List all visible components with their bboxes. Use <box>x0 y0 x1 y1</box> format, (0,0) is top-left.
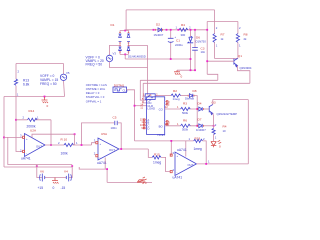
main DC rail <box>125 29 207 31</box>
svg-text:LOAD: LOAD <box>147 107 155 111</box>
svg-text:10: 10 <box>223 129 227 133</box>
svg-text:1meg: 1meg <box>153 160 161 164</box>
svg-text:0: 0 <box>53 186 55 190</box>
svg-text:R 10: R 10 <box>61 137 68 141</box>
svg-text:10n: 10n <box>201 50 206 54</box>
wire: left edge upper (to R13) <box>15 64 17 80</box>
wire: right riser output to Q3 collector line <box>247 100 249 164</box>
wire: top edge of V5 loop <box>16 63 64 65</box>
resistor R13 <box>14 79 17 85</box>
wire: bridge AC right <box>129 44 148 46</box>
capacitor C4 bypass row <box>82 123 122 149</box>
resistor R10 <box>64 143 74 146</box>
svg-text:U2A: U2A <box>30 129 37 133</box>
junction R14 tap <box>15 119 17 121</box>
wire: R2 to D8 <box>181 95 188 97</box>
svg-text:R14: R14 <box>29 109 35 113</box>
bridge diode bottom-right <box>127 47 130 51</box>
resistor R19 <box>194 139 203 142</box>
counter unused input stubs <box>145 120 147 128</box>
svg-text:CLK: CLK <box>123 88 129 92</box>
ground 0 (left loop) <box>42 97 49 103</box>
wire: to op-amp1 + input <box>4 136 23 138</box>
bridge diode D1 (top-left) <box>119 34 122 42</box>
resistor R2 <box>171 94 181 97</box>
svg-text:R7: R7 <box>221 33 225 37</box>
svg-text:1meg: 1meg <box>173 97 180 101</box>
wire: Q1 base <box>207 60 234 62</box>
wire: bottom edge of V5 loop <box>4 96 65 98</box>
svg-text:D2: D2 <box>156 23 160 27</box>
junction to op-amp + <box>3 137 5 139</box>
DigClock DSTM1 <box>113 87 127 93</box>
wire: R14 down to output node <box>50 120 52 145</box>
wire: lower supply bus <box>177 69 196 71</box>
svg-text:100n: 100n <box>111 126 118 130</box>
junction bus/battery left <box>36 165 38 167</box>
svg-text:100k: 100k <box>61 152 69 156</box>
svg-text:13: 13 <box>165 122 168 126</box>
wire: op2 output <box>119 148 148 150</box>
svg-text:D1: D1 <box>111 23 115 27</box>
svg-text:R4: R4 <box>223 125 227 129</box>
wire: top feed drop to bridge <box>125 10 127 31</box>
wire: R7 bottom to collector node <box>215 42 238 58</box>
wire: counter pin2 drop <box>143 83 146 103</box>
wire: signal rail x16 down to op-amp1 - input <box>16 97 23 152</box>
wire: left edge lower (R13 to bottom) <box>15 86 17 97</box>
resistor R3 <box>181 107 191 110</box>
svg-text:0: 0 <box>47 104 49 108</box>
svg-text:D4: D4 <box>198 102 202 106</box>
wire: switch feed drop <box>147 45 149 93</box>
diode D7 <box>199 124 202 128</box>
wire: long feed to IC pin2 rail <box>143 82 250 84</box>
svg-text:R6: R6 <box>183 118 187 122</box>
svg-text:0: 0 <box>219 144 221 148</box>
source V6 <box>41 174 43 182</box>
wire: left drop from loop bottom <box>3 97 5 168</box>
svg-text:C5: C5 <box>113 115 117 119</box>
wire: R7 hang from top feed <box>214 10 216 34</box>
wire: branch to counter pin <box>135 105 147 107</box>
transistor Q3 <box>208 106 210 113</box>
svg-text:R8: R8 <box>244 33 248 37</box>
bridge diode bottom-left <box>119 47 122 51</box>
transistor Q1 <box>233 59 235 65</box>
wire: U1 to R2 <box>155 95 171 97</box>
svg-text:DSTM1: DSTM1 <box>114 84 125 88</box>
svg-text:Q2N2222/TEMP: Q2N2222/TEMP <box>217 112 238 116</box>
svg-text:-: - <box>177 170 178 174</box>
svg-text:FREQ = 50: FREQ = 50 <box>86 63 103 67</box>
svg-text:R15: R15 <box>154 153 160 157</box>
diode bridge rails <box>120 31 129 55</box>
wire: counter pin1 drop <box>140 80 146 100</box>
resistor R14 (feedback) <box>16 119 51 121</box>
junction rail/D4 <box>196 108 198 110</box>
wire: op-amp1 output <box>45 144 64 146</box>
op-amp U2A (left) <box>25 134 46 157</box>
svg-text:1N4007: 1N4007 <box>196 128 206 132</box>
svg-text:D8: D8 <box>193 89 197 93</box>
wire: R15 to op3 - input <box>161 157 170 171</box>
svg-text:0: 0 <box>145 181 147 185</box>
svg-text:D: D <box>147 126 149 130</box>
svg-text:V5: V5 <box>66 71 70 75</box>
svg-text:Q3: Q3 <box>212 101 216 105</box>
wire: Q3 collector loop <box>213 100 249 105</box>
svg-text:1meg: 1meg <box>194 147 202 151</box>
resistor R15 <box>152 156 161 159</box>
svg-text:+15: +15 <box>38 186 44 190</box>
svg-text:300: 300 <box>181 33 186 37</box>
ground 0 (between batteries) <box>52 178 59 184</box>
wire: Q3 emitter down <box>212 113 215 128</box>
wire: lower bus <box>4 166 72 168</box>
svg-text:OUT: OUT <box>109 148 115 152</box>
wire: jog from T-branch <box>207 74 218 80</box>
wire: counter CO row to R3/D4 <box>165 108 198 110</box>
wire: + input drop <box>169 141 172 155</box>
wire: T-branch at main rail end <box>206 22 208 75</box>
wire: Q1 emitter to right riser <box>238 66 250 84</box>
capacitor C1 <box>170 30 172 59</box>
svg-text:OUT: OUT <box>36 145 42 149</box>
wire: right edge of V5 loop <box>64 64 65 97</box>
zener D3 <box>190 30 192 70</box>
resistor R8 <box>237 22 239 34</box>
junction rail/D7 <box>196 125 198 127</box>
wire: D4 to Q3 base <box>204 108 210 110</box>
svg-text:uA741: uA741 <box>21 157 31 161</box>
svg-text:11: 11 <box>140 105 143 109</box>
svg-text:uA741: uA741 <box>173 176 183 180</box>
wire: op3 output <box>197 163 249 165</box>
IC U4 74193 counter <box>147 97 165 135</box>
svg-text:500k: 500k <box>182 111 189 115</box>
resistor R7 <box>213 34 216 43</box>
svg-text:Q2N3904: Q2N3904 <box>240 66 252 70</box>
bridge diode top-right <box>127 34 130 42</box>
resistor R9 <box>212 128 215 134</box>
wire: D8 to distribution rail <box>194 96 197 126</box>
capacitor C3 <box>194 30 196 70</box>
svg-text:500k: 500k <box>182 128 189 132</box>
svg-text:-: - <box>26 151 27 155</box>
wire: long feed to IC pin1 rail <box>140 79 218 81</box>
wire: upper jog to R8 <box>207 21 238 23</box>
svg-text:uA741: uA741 <box>177 148 187 152</box>
sine source V5 <box>60 74 66 80</box>
wire: analog ground bus <box>107 181 152 183</box>
resistor R6 <box>181 124 191 127</box>
svg-text:V4: V4 <box>64 170 68 174</box>
bridge diode pin marks <box>119 33 129 52</box>
svg-text:R3: R3 <box>183 102 187 106</box>
diode D8 <box>189 94 192 98</box>
svg-text:-15: -15 <box>61 186 66 190</box>
wire: clock feed down <box>127 90 135 141</box>
svg-text:Q1: Q1 <box>238 54 242 58</box>
ground 0 (supply) <box>174 70 180 75</box>
wire: bridge AC left to V3 <box>110 45 121 55</box>
svg-text:1N4007: 1N4007 <box>154 33 164 37</box>
wire: rail drop to signal node <box>74 134 76 145</box>
svg-text:OPPVAL = 1: OPPVAL = 1 <box>86 99 102 103</box>
op-amp U5A <box>98 138 119 160</box>
wire: inner rail to lower bus <box>8 137 72 164</box>
svg-text:FREQ = 50: FREQ = 50 <box>40 82 57 86</box>
wire: bridge DC minus drop to bus <box>124 54 126 59</box>
svg-text:V3: V3 <box>113 52 117 56</box>
diode D2 <box>157 28 162 32</box>
wire: drop to R15 <box>148 149 152 157</box>
svg-text:12: 12 <box>165 105 168 109</box>
wire: R19 feed row <box>135 140 194 142</box>
wire: counter BO row to R6/D7 <box>165 125 198 127</box>
junction on loop bottom <box>44 96 46 98</box>
svg-text:U5A: U5A <box>101 132 108 136</box>
op-amp U3A <box>175 152 197 176</box>
wire: V3 bottom return <box>110 62 148 68</box>
wire: rise to op2 + input <box>92 143 96 145</box>
svg-text:R4: R4 <box>181 23 185 27</box>
svg-text:R19: R19 <box>195 136 201 140</box>
wire: R9 to LED <box>213 135 215 142</box>
wire: top feed <box>126 9 215 11</box>
ground 0 (analog bus) <box>137 177 146 184</box>
wire: op1 V+ rail <box>32 134 75 137</box>
source V4 <box>68 174 70 182</box>
counter output stubs right <box>165 102 167 125</box>
svg-text:74193: 74193 <box>157 133 165 137</box>
wire: op2 V- pin drop to analog ground <box>79 158 107 183</box>
wire: battery drops <box>37 165 72 178</box>
wire: supply ground bus <box>125 58 190 60</box>
svg-text:D1N750: D1N750 <box>196 39 207 43</box>
svg-text:V6: V6 <box>40 170 44 174</box>
diode D4 <box>199 107 202 111</box>
svg-text:Dbreak: Dbreak <box>185 97 195 101</box>
wire: D7 to emitter node <box>204 125 214 127</box>
wire: op3 V+ stub <box>185 141 187 157</box>
LED D5 <box>211 142 216 148</box>
resistor R4 <box>179 28 188 31</box>
sine source V3 <box>106 55 112 61</box>
svg-text:R2: R2 <box>173 89 177 93</box>
svg-text:6.8k: 6.8k <box>23 83 30 87</box>
switch U1 <box>143 95 146 97</box>
wire: R8 bottom to collector <box>237 42 239 58</box>
svg-text:0: 0 <box>181 74 183 78</box>
svg-text:OUT: OUT <box>188 163 194 167</box>
svg-text:-: - <box>100 155 101 159</box>
svg-text:D1N4148/55D: D1N4148/55D <box>128 55 146 59</box>
svg-text:2200u: 2200u <box>175 43 183 47</box>
wire: R19 right down to output <box>203 141 207 164</box>
svg-text:D7: D7 <box>198 118 202 122</box>
